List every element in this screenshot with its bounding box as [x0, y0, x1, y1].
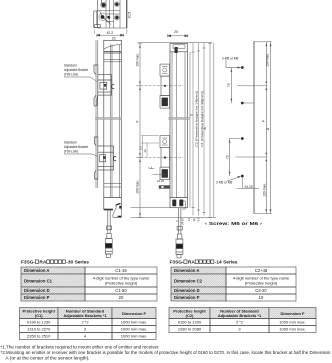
- top view screw outline circles: [101, 2, 107, 8]
- svg-text:F3SG-: F3SG-: [21, 260, 36, 266]
- svg-text:42.2: 42.2: [106, 31, 113, 35]
- svg-text:100 max.: 100 max.: [266, 53, 270, 67]
- svg-text:12: 12: [143, 149, 147, 153]
- svg-text:2 *2: 2 *2: [236, 320, 244, 325]
- svg-text:(Protective height): (Protective height): [245, 281, 278, 286]
- cap bottom line: [104, 52, 122, 54]
- wall line: [253, 41, 255, 213]
- 73 dim bottom: [229, 139, 231, 177]
- front view left dimension line F / 100max: [136, 44, 159, 218]
- small dims near bracket2: [141, 136, 159, 158]
- top extension line: [138, 42, 212, 44]
- bracket1 bottom tab: [94, 95, 98, 106]
- cap curve: [104, 45, 122, 50]
- bracket2 bolt mark: [113, 157, 116, 161]
- svg-text:2350 to 2510: 2350 to 2510: [27, 334, 51, 339]
- right dimension table: [171, 267, 296, 301]
- bracket1 clamp block: [98, 75, 112, 95]
- svg-text:Adjustable Brackets *1: Adjustable Brackets *1: [218, 313, 262, 318]
- center line bracket1: [136, 85, 183, 87]
- dim line 42.2: [97, 34, 124, 37]
- tiny dims under body bottom: [175, 218, 185, 225]
- bottom extension line: [131, 208, 217, 218]
- upper window band: [104, 60, 122, 62]
- front view right dimension lines: [187, 43, 214, 222]
- top view inner divider lines: [106, 0, 120, 28]
- svg-text:RA: RA: [39, 260, 46, 266]
- indicator block at body base: [159, 185, 170, 188]
- svg-text:Adjustable Brackets *1: Adjustable Brackets *1: [63, 313, 107, 318]
- screw leader top: [226, 60, 241, 68]
- svg-text:100 max.: 100 max.: [136, 180, 140, 194]
- svg-text:Dimension D: Dimension D: [24, 288, 50, 293]
- svg-text:Dimension C1: Dimension C1: [24, 279, 53, 284]
- dim line A: [270, 42, 272, 214]
- svg-text:Standard: Standard: [64, 141, 77, 145]
- svg-text:100 max.: 100 max.: [136, 53, 140, 67]
- svg-text:30.5: 30.5: [127, 12, 131, 19]
- top view screw circles (filled): [101, 2, 119, 19]
- dim line F/100max: [265, 42, 267, 214]
- svg-text:Dimension P: Dimension P: [24, 295, 50, 300]
- svg-text:F3SG-: F3SG-: [170, 260, 185, 266]
- svg-text:(C1): (C1): [35, 313, 43, 318]
- svg-text:C2 (Protective height for 14[m: C2 (Protective height for 14[mm]): [194, 91, 198, 147]
- dim text 23: [112, 37, 116, 41]
- svg-text:1310 to 2270: 1310 to 2270: [27, 327, 51, 332]
- svg-text:24.25: 24.25: [157, 179, 164, 183]
- top extension: [254, 41, 272, 43]
- bracket2 top tab: [95, 137, 98, 146]
- front view cable + connector: [176, 208, 183, 258]
- svg-text:F: F: [261, 120, 265, 122]
- left series title: [21, 260, 89, 266]
- side view bracket 2: [95, 137, 116, 179]
- svg-text:10: 10: [259, 295, 264, 300]
- small dims + indicator below bracket2: [149, 166, 166, 175]
- svg-text:0190 to 1230: 0190 to 1230: [27, 320, 51, 325]
- svg-text:2-M5 or M6: 2-M5 or M6: [216, 180, 233, 184]
- cap dark bottom edge: [104, 208, 113, 210]
- svg-text:Dimension A: Dimension A: [24, 268, 49, 273]
- svg-text:(F39-LGA): (F39-LGA): [64, 150, 78, 154]
- svg-text:(Protective height): (Protective height): [105, 281, 138, 286]
- svg-text:-30 Series: -30 Series: [66, 260, 89, 266]
- center line bracket2: [136, 157, 183, 159]
- svg-text:Adjustable Bracket: Adjustable Bracket: [64, 68, 88, 72]
- dim text 42.2: [106, 31, 113, 35]
- svg-text:73: 73: [225, 155, 229, 159]
- svg-text:Dimension P: Dimension P: [174, 295, 200, 300]
- svg-text:2 *2: 2 *2: [81, 320, 89, 325]
- left bracket-count table: [20, 308, 157, 340]
- svg-text:*2.Mounting an emitter or rece: *2.Mounting an emitter or receiver with …: [1, 350, 332, 355]
- svg-text:Dimension A: Dimension A: [174, 268, 199, 273]
- svg-text:Dimension F: Dimension F: [122, 311, 147, 316]
- top view diagonal bracket edge: [100, 11, 112, 25]
- front view bracket 1: [136, 64, 183, 108]
- svg-text:20: 20: [119, 295, 124, 300]
- svg-text:Adjustable Bracket: Adjustable Bracket: [64, 145, 88, 149]
- svg-text:4.5: 4.5: [197, 217, 201, 221]
- body outline: [104, 40, 122, 210]
- svg-text:1000 mm max.: 1000 mm max.: [279, 320, 305, 325]
- bracket plate verticals: [96, 40, 98, 188]
- bracket1 top tab: [94, 65, 98, 75]
- body inner verticals: [111, 45, 120, 198]
- svg-text:Dimension F: Dimension F: [280, 311, 305, 316]
- svg-text:F: F: [136, 120, 140, 122]
- svg-text:C2+48: C2+48: [255, 268, 268, 273]
- left dimension table: [21, 267, 157, 301]
- side view bracket 1: [94, 65, 114, 106]
- 73 dim top: [230, 68, 232, 104]
- body joint band: [95, 118, 121, 120]
- svg-text:1000 mm max.: 1000 mm max.: [121, 327, 147, 332]
- right series title: [170, 260, 238, 266]
- svg-text:C2-20: C2-20: [255, 288, 267, 293]
- top view outer body rect: [98, 0, 127, 28]
- svg-text:‹ Screw: M5 or M6 ›: ‹ Screw: M5 or M6 ›: [205, 221, 263, 227]
- center line top bracket: [237, 85, 267, 87]
- svg-text:20: 20: [174, 30, 178, 34]
- top view left flange plate: [94, 11, 98, 27]
- center line bottom bracket: [236, 156, 268, 158]
- svg-text:24.25: 24.25: [245, 185, 253, 189]
- svg-text:1000 mm max.: 1000 mm max.: [121, 320, 147, 325]
- dim line 20: [168, 34, 188, 37]
- svg-text:C1-18: C1-18: [115, 268, 127, 273]
- screws: [241, 66, 244, 177]
- top view bottom-left step square: [95, 25, 101, 28]
- svg-text:12: 12: [187, 218, 191, 222]
- svg-text:1000 mm max.: 1000 mm max.: [121, 334, 147, 339]
- 24.25 dim: [236, 178, 259, 192]
- right bracket-count table: [169, 308, 316, 333]
- svg-text:0160 to 1200: 0160 to 1200: [178, 320, 202, 325]
- top cap details: [170, 51, 188, 53]
- front view bracket 2: [136, 136, 183, 180]
- cable gland hook right: [113, 203, 122, 217]
- svg-text:100 max.: 100 max.: [262, 183, 266, 197]
- screw leader bottom: [227, 177, 240, 181]
- label: standard adjustable bracket (lower): [64, 141, 98, 157]
- body top edge: [103, 39, 122, 41]
- svg-text:*1.The number of brackets requ: *1.The number of brackets required to mo…: [1, 345, 160, 350]
- bottom cap lines: [104, 198, 122, 211]
- bottom cap details: [170, 197, 188, 199]
- dim text 20: [174, 30, 178, 34]
- bottom extension: [254, 213, 272, 215]
- svg-text:1000 mm max.: 1000 mm max.: [279, 327, 305, 332]
- svg-text:Dimension C2: Dimension C2: [174, 279, 203, 284]
- top view extension ticks: [95, 29, 127, 34]
- bracket2 bottom tab: [95, 170, 98, 179]
- svg-text:73: 73: [227, 83, 231, 87]
- svg-text:Standard: Standard: [64, 64, 77, 68]
- svg-text:18: 18: [192, 218, 196, 222]
- body outline: [170, 44, 188, 208]
- svg-text:C1-50: C1-50: [115, 288, 127, 293]
- bracket2 clamp block: [98, 146, 114, 170]
- bracket1 bolt mark: [112, 84, 115, 88]
- svg-text:Dimension D: Dimension D: [174, 288, 200, 293]
- svg-text:1280 to 2080: 1280 to 2080: [178, 327, 202, 332]
- svg-text:8.5: 8.5: [139, 146, 143, 150]
- lower window band: [104, 184, 122, 188]
- side view cable + connector: [104, 203, 122, 257]
- svg-text:-14 Series: -14 Series: [215, 260, 238, 266]
- front view body joint band: [169, 118, 189, 120]
- svg-text:C1 (Protective height for 30[m: C1 (Protective height for 30[mm]): [200, 91, 204, 147]
- svg-text:2-M5 or M6: 2-M5 or M6: [222, 57, 239, 61]
- svg-text:A (or at the center of the sen: A (or at the center of the sensor length…: [6, 355, 90, 360]
- body inner verticals: [172, 52, 185, 198]
- svg-text:RA: RA: [188, 260, 195, 266]
- footnotes: [1, 345, 332, 361]
- svg-text:(F39-LGA): (F39-LGA): [64, 73, 78, 77]
- svg-text:(C2): (C2): [186, 313, 194, 318]
- label: standard adjustable bracket (upper): [64, 64, 97, 82]
